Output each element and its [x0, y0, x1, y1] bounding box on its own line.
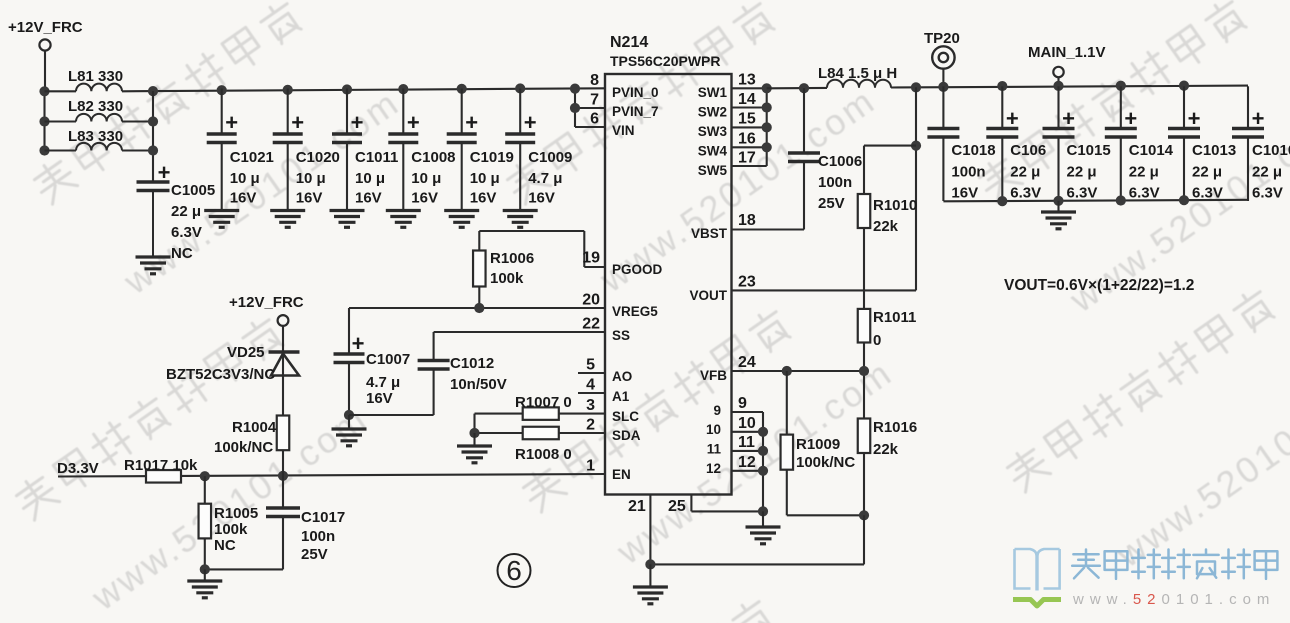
resistor R1009 100k/NC	[781, 371, 856, 515]
svg-text:8: 8	[590, 72, 599, 89]
svg-text:22k: 22k	[873, 441, 899, 458]
svg-text:+: +	[1124, 106, 1137, 131]
wire R1006 to pin 19	[479, 231, 605, 267]
svg-text:C1020: C1020	[296, 149, 340, 166]
pin 1 EN	[586, 458, 631, 483]
svg-text:R1007 0: R1007 0	[515, 394, 572, 411]
svg-text:22k: 22k	[873, 218, 899, 235]
logo book icon	[1013, 549, 1061, 606]
svg-text:16V: 16V	[355, 190, 382, 207]
node bus junction above C1011	[342, 84, 352, 94]
wire pins 8-7-6 tie	[570, 84, 580, 128]
inductor L82 330	[45, 98, 154, 122]
svg-text:11: 11	[707, 442, 722, 457]
ground (C1021)	[204, 211, 239, 228]
node bus junction above C1009	[515, 83, 525, 93]
svg-text:C106: C106	[1010, 142, 1046, 159]
svg-text:10n/50V: 10n/50V	[450, 376, 507, 393]
pin 13 SW1	[698, 72, 767, 101]
svg-text:A1: A1	[612, 389, 630, 404]
svg-text:15: 15	[738, 111, 756, 128]
svg-text:VOUT: VOUT	[689, 288, 727, 303]
svg-text:www.520101.com: www.520101.com	[1072, 591, 1275, 608]
node bus junction above C1008	[398, 84, 408, 94]
svg-text:100k: 100k	[490, 270, 524, 287]
capacitor C1008 10 u 16V	[388, 89, 455, 211]
node output rail junction at C1015	[1053, 81, 1063, 91]
wire VOUT line (pin 23)	[732, 289, 917, 291]
node bus junction above C1020	[283, 85, 293, 95]
svg-text:10 μ: 10 μ	[470, 170, 500, 187]
svg-text:10 μ: 10 μ	[355, 170, 385, 187]
svg-text:C1011: C1011	[355, 149, 398, 166]
resistor R1017 10k	[124, 457, 198, 483]
resistor R1016 22k	[858, 419, 917, 516]
node bus junction above C1021	[217, 85, 227, 95]
svg-text:C1013: C1013	[1192, 142, 1236, 159]
svg-text:C1017: C1017	[301, 509, 345, 526]
svg-text:VD25: VD25	[227, 344, 265, 361]
ground (C1011)	[330, 211, 365, 228]
svg-text:14: 14	[738, 91, 756, 108]
svg-text:L84 1.5 μ H: L84 1.5 μ H	[818, 65, 897, 82]
node bus junction at L right side	[148, 86, 158, 182]
svg-text:20: 20	[582, 292, 600, 309]
svg-text:7: 7	[590, 92, 599, 109]
svg-text:C1008: C1008	[411, 149, 455, 166]
svg-text:12: 12	[706, 461, 721, 476]
node EN/C1017 junction	[278, 471, 288, 481]
wire pins 9-12 tie to ground	[758, 412, 768, 517]
node output rail junction at C1014	[1116, 81, 1126, 91]
svg-text:10: 10	[706, 422, 721, 437]
capacitor C1011 10 u 16V	[332, 89, 398, 211]
net label MAIN_1.1V	[1028, 44, 1106, 86]
pin 9	[713, 395, 763, 418]
svg-text:25V: 25V	[818, 195, 845, 212]
svg-text:C1010: C1010	[1252, 142, 1290, 159]
svg-text:16V: 16V	[528, 190, 555, 207]
svg-text:+12V_FRC: +12V_FRC	[8, 19, 83, 36]
svg-text:VFB: VFB	[700, 368, 727, 383]
svg-text:10 μ: 10 μ	[296, 170, 326, 187]
svg-text:VBST: VBST	[691, 226, 728, 241]
svg-text:+: +	[291, 110, 304, 135]
svg-text:22: 22	[582, 316, 600, 333]
ground (pins 9-12 / pin 25)	[746, 511, 781, 543]
svg-text:C1021: C1021	[230, 149, 274, 166]
node output rail junction at C106	[997, 81, 1007, 91]
svg-text:C1015: C1015	[1067, 142, 1111, 159]
wire R1007/R1008 tie to ground	[469, 414, 479, 439]
svg-text:16V: 16V	[470, 190, 497, 207]
svg-text:PVIN_0: PVIN_0	[612, 85, 659, 100]
ground (C1008)	[386, 211, 421, 228]
svg-text:SW5: SW5	[698, 163, 728, 178]
svg-text:100n: 100n	[301, 528, 335, 545]
pin 17 SW5	[698, 150, 767, 179]
pin 10	[706, 415, 763, 437]
ground (C1009)	[503, 211, 538, 228]
svg-text:SDA: SDA	[612, 428, 641, 443]
svg-text:C1014: C1014	[1129, 142, 1174, 159]
node output rail junction at C1013	[1179, 81, 1189, 91]
resistor R1010 22k	[858, 146, 917, 309]
op-amp/regulator IC N214 TPS56C20PWPR	[605, 34, 732, 495]
svg-text:24: 24	[738, 354, 756, 371]
svg-text:22 μ: 22 μ	[1252, 164, 1282, 181]
svg-text:R1004: R1004	[232, 419, 277, 436]
svg-text:11: 11	[738, 434, 755, 451]
svg-text:100n: 100n	[818, 174, 852, 191]
pin 8 PVIN_0	[590, 72, 658, 100]
svg-text:+: +	[465, 110, 478, 135]
svg-text:1: 1	[586, 458, 595, 475]
resistor R1005 100k NC	[199, 476, 259, 569]
svg-text:NC: NC	[171, 245, 193, 262]
pin 6 VIN	[575, 111, 635, 139]
pin 15 SW3	[698, 111, 767, 140]
pin 16 SW4	[698, 131, 767, 159]
svg-text:4.7 μ: 4.7 μ	[528, 170, 562, 187]
svg-text:C1012: C1012	[450, 355, 494, 372]
svg-text:+: +	[524, 110, 537, 135]
capacitor C1021 10 u 16V	[207, 89, 274, 211]
svg-text:N214: N214	[610, 34, 648, 51]
svg-text:SS: SS	[612, 328, 630, 343]
resistor R1007 0	[475, 394, 606, 420]
capacitor C1007 4.7u 16V	[334, 308, 411, 415]
formula label VOUT	[1004, 277, 1194, 294]
capacitor C1015 22 u 6.3V	[1043, 86, 1111, 201]
ground (C1019)	[444, 211, 479, 228]
svg-text:+: +	[158, 160, 171, 185]
svg-text:SW2: SW2	[698, 105, 727, 120]
svg-text:+: +	[1062, 106, 1075, 131]
svg-text:+: +	[225, 110, 238, 135]
wire bottom ground return	[645, 515, 864, 569]
wire SW output rail	[767, 87, 827, 90]
node C1007/C1012 ground junction	[344, 410, 354, 420]
svg-text:25: 25	[668, 498, 686, 515]
wire EN line (pin 1)	[58, 474, 605, 477]
pin 7 PVIN_7	[575, 92, 659, 120]
svg-text:17: 17	[738, 150, 756, 167]
pin 20 VREG5	[582, 292, 658, 320]
resistor R1011 0	[858, 309, 917, 419]
svg-text:+: +	[351, 110, 364, 135]
pin 4 A1 (stub)	[578, 377, 630, 405]
svg-text:NC: NC	[214, 537, 236, 554]
svg-text:6.3V: 6.3V	[171, 224, 202, 241]
svg-text:C1006: C1006	[818, 153, 862, 170]
svg-text:13: 13	[738, 72, 756, 89]
node bus junction above C1019	[457, 84, 467, 94]
svg-text:PGOOD: PGOOD	[612, 262, 663, 277]
svg-text:18: 18	[738, 212, 756, 229]
logo url www.520101.com	[1072, 591, 1275, 608]
svg-text:0: 0	[873, 332, 881, 349]
svg-text:AO: AO	[612, 369, 632, 384]
svg-text:R1011: R1011	[873, 309, 916, 326]
inductor L83 330	[45, 128, 154, 151]
svg-text:6.3V: 6.3V	[1010, 185, 1041, 202]
node EN/R1005 junction	[200, 471, 210, 481]
svg-text:C1019: C1019	[470, 149, 514, 166]
capacitor C1017 100n 25V	[205, 476, 345, 570]
svg-text:10 μ: 10 μ	[411, 170, 441, 187]
capacitor C106 22 u 6.3V	[986, 86, 1046, 201]
resistor R1008 0	[475, 427, 606, 463]
svg-text:C1007: C1007	[366, 351, 410, 368]
svg-text:D3.3V: D3.3V	[57, 460, 99, 477]
wire VREG5 line (pin 20)	[349, 303, 605, 313]
wire R1010 branch	[864, 145, 916, 147]
svg-text:6: 6	[590, 111, 599, 128]
svg-text:L81 330: L81 330	[68, 68, 123, 85]
capacitor C1010 22 u 6.3V	[1232, 86, 1290, 201]
net label D3.3V	[57, 460, 99, 477]
inductor L81 330	[45, 68, 124, 91]
svg-text:16V: 16V	[411, 190, 438, 207]
svg-text:+12V_FRC: +12V_FRC	[229, 294, 304, 311]
capacitor C1013 22 u 6.3V	[1168, 86, 1236, 201]
svg-text:SW4: SW4	[698, 144, 728, 159]
svg-text:16: 16	[738, 131, 756, 148]
svg-text:4.7 μ: 4.7 μ	[366, 374, 400, 391]
pin 3 SLC	[586, 397, 639, 424]
svg-text:100k/NC: 100k/NC	[796, 454, 855, 471]
svg-text:MAIN_1.1V: MAIN_1.1V	[1028, 44, 1106, 61]
sheet number 6 (circled)	[498, 554, 531, 587]
capacitor C1018 100n 16V	[927, 86, 995, 201]
wire R1009/R1016 bottom tie	[787, 510, 869, 520]
pin 21	[628, 495, 650, 565]
svg-text:TPS56C20PWPR: TPS56C20PWPR	[610, 53, 720, 69]
svg-text:TP20: TP20	[924, 30, 960, 47]
svg-text:R1009: R1009	[796, 436, 840, 453]
svg-text:22 μ: 22 μ	[1192, 164, 1222, 181]
capacitor C1019 10 u 16V	[447, 89, 514, 211]
svg-text:R1005: R1005	[214, 505, 258, 522]
svg-text:6: 6	[506, 555, 522, 586]
diode VD25 BZT52C3V3/NC (zener)	[166, 344, 300, 416]
svg-text:SLC: SLC	[612, 409, 639, 424]
svg-text:16V: 16V	[951, 185, 978, 202]
pin 2 SDA	[586, 417, 641, 444]
svg-text:21: 21	[628, 498, 646, 515]
svg-text:22 μ: 22 μ	[1129, 164, 1159, 181]
svg-text:BZT52C3V3/NC: BZT52C3V3/NC	[166, 366, 275, 383]
svg-text:VREG5: VREG5	[612, 304, 658, 319]
pin 19 PGOOD	[582, 250, 662, 278]
node R1005/C1017 ground junction	[200, 564, 210, 574]
capacitor C1005 22u 6.3V NC	[137, 160, 216, 262]
svg-text:C1009: C1009	[528, 149, 572, 166]
svg-text:6.3V: 6.3V	[1129, 185, 1160, 202]
pin 14 SW2	[698, 91, 767, 120]
svg-text:23: 23	[738, 274, 756, 291]
svg-text:22 μ: 22 μ	[171, 203, 201, 220]
svg-text:R1017 10k: R1017 10k	[124, 457, 198, 474]
svg-text:9: 9	[738, 395, 747, 412]
svg-text:L83 330: L83 330	[68, 128, 123, 145]
svg-text:EN: EN	[612, 467, 631, 482]
svg-text:6.3V: 6.3V	[1067, 185, 1098, 202]
capacitor C1012 10n/50V	[349, 332, 507, 415]
pin 18 VBST	[691, 212, 756, 241]
svg-text:25V: 25V	[301, 546, 328, 563]
svg-text:+: +	[407, 110, 420, 135]
pin 11	[707, 434, 763, 457]
svg-text:3: 3	[586, 397, 595, 414]
svg-text:R1006: R1006	[490, 250, 534, 267]
wire output bottom rail	[943, 195, 1248, 206]
svg-text:100k/NC: 100k/NC	[214, 439, 273, 456]
capacitor C1020 10 u 16V	[273, 89, 340, 211]
svg-text:10 μ: 10 μ	[230, 170, 260, 187]
resistor R1004 100k/NC	[214, 416, 289, 476]
svg-text:12: 12	[738, 454, 756, 471]
svg-text:22 μ: 22 μ	[1067, 164, 1097, 181]
svg-text:100n: 100n	[951, 164, 985, 181]
pin 5 A0 (stub)	[578, 357, 632, 385]
svg-text:R1016: R1016	[873, 419, 917, 436]
test point TP20	[924, 30, 960, 92]
svg-text:+: +	[1252, 106, 1265, 131]
wire output rail after L84	[891, 86, 1248, 88]
node C1006 tap	[799, 83, 809, 93]
pin 22 SS	[582, 316, 630, 344]
svg-text:10: 10	[738, 415, 756, 432]
ground (C1007)	[332, 415, 367, 446]
inductor L84 1.5uH	[818, 65, 897, 88]
svg-text:R1008 0: R1008 0	[515, 446, 572, 463]
pin 12	[706, 454, 763, 476]
capacitor C1006 100n 25V	[788, 88, 862, 229]
svg-text:C1018: C1018	[951, 142, 995, 159]
ground (C1020)	[270, 211, 305, 228]
svg-text:SW1: SW1	[698, 85, 728, 100]
net label +12V_FRC (input terminal)	[8, 19, 83, 91]
svg-text:+: +	[352, 331, 365, 356]
ground (pin 21)	[633, 564, 668, 603]
svg-text:9: 9	[713, 403, 721, 418]
node VOUT sense tap	[911, 82, 921, 92]
svg-text:22 μ: 22 μ	[1010, 164, 1040, 181]
svg-text:+: +	[1006, 106, 1019, 131]
ground (R1005/C1017)	[187, 569, 222, 597]
capacitor C1014 22 u 6.3V	[1105, 86, 1174, 201]
wire VFB line (pin 24)	[732, 366, 870, 376]
svg-text:SW3: SW3	[698, 124, 728, 139]
resistor R1006 100k	[473, 231, 534, 308]
svg-text:6.3V: 6.3V	[1252, 185, 1283, 202]
wire VBST line (pin 18)	[732, 228, 805, 230]
svg-text:VOUT=0.6V×(1+22/22)=1.2: VOUT=0.6V×(1+22/22)=1.2	[1004, 277, 1194, 294]
svg-text:16V: 16V	[230, 190, 257, 207]
net label +12V_FRC (VD25 branch)	[229, 294, 304, 351]
wire left vertical bus	[43, 91, 45, 151]
wire VOUT sense vertical	[911, 87, 921, 290]
svg-text:100k: 100k	[214, 521, 248, 538]
svg-text:R1010: R1010	[873, 197, 917, 214]
node junctions on left bus	[39, 86, 49, 155]
svg-text:16V: 16V	[366, 390, 393, 407]
svg-text:16V: 16V	[296, 190, 323, 207]
svg-text:2: 2	[586, 417, 595, 434]
wire +12V bus (top, to pin 8)	[122, 88, 605, 91]
ground (C1005)	[136, 257, 171, 274]
capacitor C1009 4.7 u 16V	[505, 89, 572, 211]
svg-text:19: 19	[582, 250, 600, 267]
pin 23 VOUT	[689, 274, 755, 304]
pin 24 VFB	[700, 354, 756, 383]
svg-text:C1005: C1005	[171, 182, 215, 199]
svg-text:PVIN_7: PVIN_7	[612, 104, 659, 119]
svg-text:+: +	[1188, 106, 1201, 131]
wire SS line (pin 22)	[434, 331, 605, 333]
svg-text:4: 4	[586, 377, 595, 394]
ground (output caps)	[1041, 201, 1076, 229]
svg-text:VIN: VIN	[612, 123, 635, 138]
svg-text:L82 330: L82 330	[68, 98, 123, 115]
svg-text:5: 5	[586, 357, 595, 374]
wire SW pins tie	[762, 83, 772, 166]
logo text (blue calligraphy)	[1072, 550, 1277, 579]
pin 25	[668, 495, 763, 516]
ground (R1007/R1008)	[457, 433, 492, 463]
